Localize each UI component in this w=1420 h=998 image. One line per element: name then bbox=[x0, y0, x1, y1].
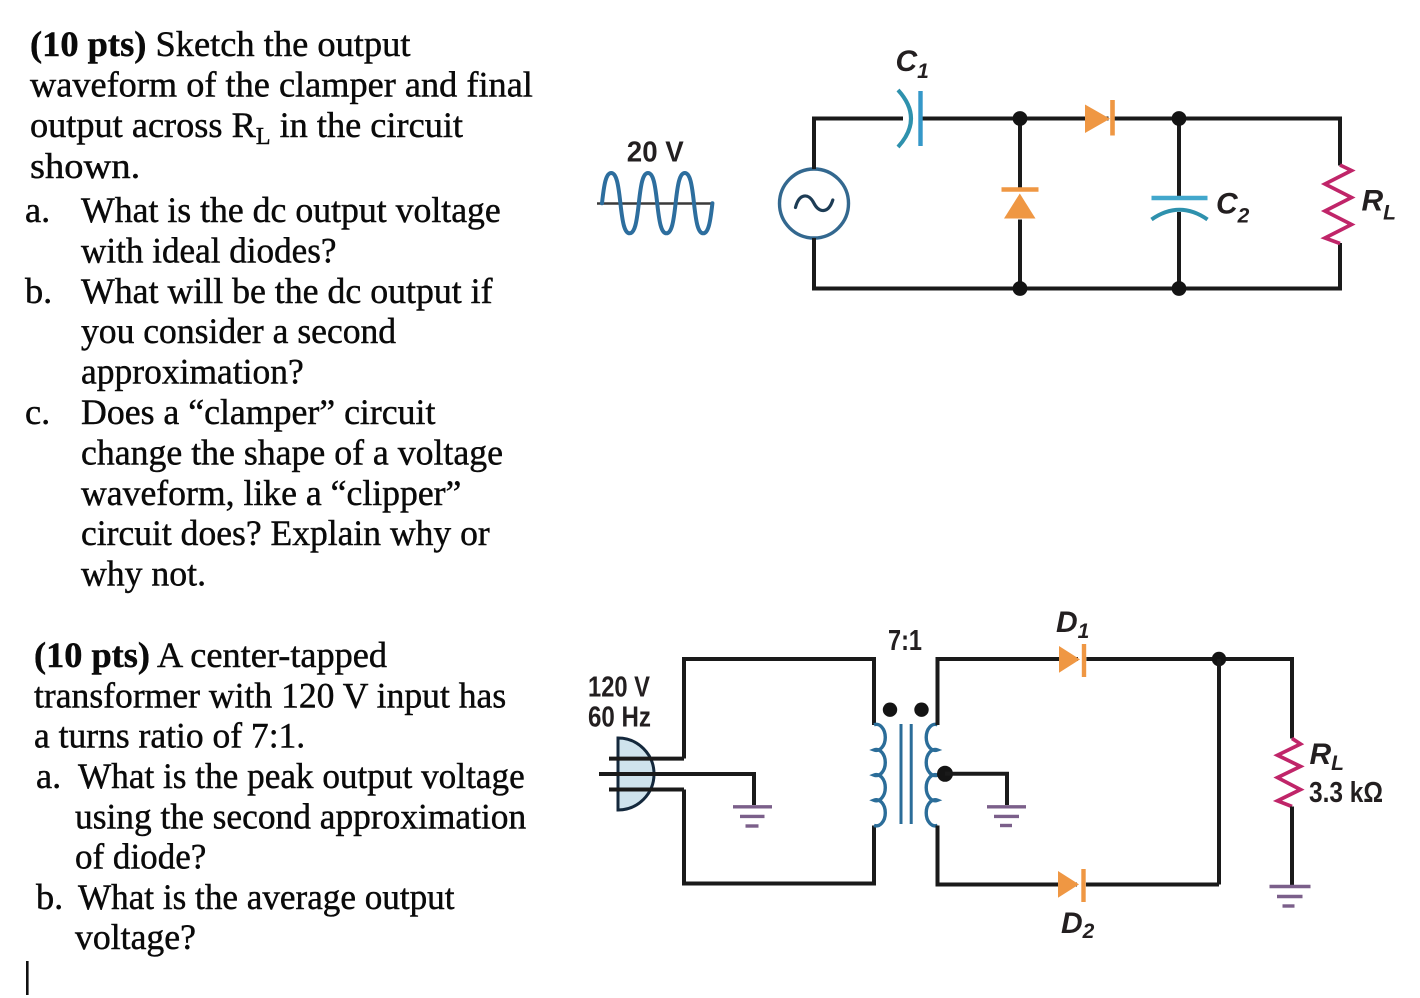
resistor RL (circuit 1) bbox=[1325, 165, 1352, 244]
CIRCUIT 1 (clamper) bbox=[597, 45, 1396, 296]
phase dot secondary bbox=[914, 703, 928, 717]
svg-text:output across RL in the circui: output across RL in the circuit bbox=[30, 105, 463, 150]
svg-text:What will be the dc output if: What will be the dc output if bbox=[81, 271, 493, 311]
label C2 bbox=[1216, 188, 1250, 228]
plug prong bottom bbox=[609, 788, 684, 792]
capacitor C2 branch wire upper bbox=[1177, 119, 1181, 197]
svg-text:a turns ratio of 7:1.: a turns ratio of 7:1. bbox=[34, 716, 305, 756]
capacitor C2 bbox=[1152, 198, 1208, 220]
secondary top wire through D1 bbox=[938, 659, 1293, 739]
node E (output junction) bbox=[1212, 652, 1226, 666]
svg-text:you consider a second: you consider a second bbox=[81, 311, 396, 351]
wire from C1 to top-right corner bbox=[921, 119, 1341, 166]
svg-text:b.: b. bbox=[25, 271, 52, 311]
AC source VS bbox=[780, 169, 849, 238]
center tap dot bbox=[937, 766, 953, 782]
svg-text:What is the average output: What is the average output bbox=[78, 877, 455, 917]
ground (primary neutral) bbox=[733, 807, 772, 826]
svg-text:60 Hz: 60 Hz bbox=[588, 701, 651, 733]
label C1 bbox=[896, 45, 929, 83]
svg-text:voltage?: voltage? bbox=[75, 917, 196, 957]
primary loop bottom wire bbox=[684, 790, 874, 884]
svg-text:shown.: shown. bbox=[30, 146, 140, 186]
node C (top junction of C2) bbox=[1172, 111, 1187, 126]
svg-text:7:1: 7:1 bbox=[888, 625, 922, 657]
primary loop top wire bbox=[684, 659, 874, 759]
svg-text:What is the peak output voltag: What is the peak output voltage bbox=[78, 756, 525, 796]
svg-text:120 V: 120 V bbox=[588, 672, 651, 704]
secondary bottom wire through D2 bbox=[938, 826, 1220, 885]
diode D2 bbox=[1058, 869, 1084, 902]
value label 20 V bbox=[627, 136, 685, 168]
svg-text:What is the dc output voltage: What is the dc output voltage bbox=[81, 190, 501, 230]
label RL (circuit 1) bbox=[1362, 185, 1397, 225]
wire RL bottom to ground bbox=[1290, 807, 1294, 887]
svg-text:RL: RL bbox=[1362, 185, 1397, 225]
svg-text:D2: D2 bbox=[1061, 907, 1095, 943]
transformer secondary winding bbox=[926, 724, 937, 825]
svg-text:a.: a. bbox=[36, 756, 61, 796]
node A (top junction of shunt diode) bbox=[1013, 111, 1028, 126]
svg-text:20 V: 20 V bbox=[627, 136, 685, 168]
text cursor caret bbox=[26, 961, 29, 995]
transformer primary winding bbox=[874, 724, 885, 825]
svg-text:(10 pts) Sketch the output: (10 pts) Sketch the output bbox=[30, 24, 411, 64]
AC plug symbol bbox=[618, 738, 654, 810]
shunt diode branch wire bbox=[1018, 119, 1022, 289]
capacitor C1 bbox=[898, 90, 921, 147]
svg-text:C1: C1 bbox=[896, 45, 929, 83]
svg-text:(10 pts) A center-tapped: (10 pts) A center-tapped bbox=[34, 635, 387, 675]
svg-text:3.3 kΩ: 3.3 kΩ bbox=[1309, 777, 1383, 809]
label RL (circuit 2) bbox=[1310, 738, 1345, 775]
svg-text:waveform, like a “clipper”: waveform, like a “clipper” bbox=[81, 473, 461, 513]
svg-text:a.: a. bbox=[25, 190, 50, 230]
label D1 bbox=[1056, 606, 1089, 643]
svg-text:with ideal diodes?: with ideal diodes? bbox=[81, 230, 337, 270]
ground (center tap) bbox=[987, 807, 1026, 826]
svg-text:circuit does? Explain why or: circuit does? Explain why or bbox=[81, 513, 490, 553]
plug prong top bbox=[609, 757, 684, 761]
svg-text:Does a “clamper” circuit: Does a “clamper” circuit bbox=[81, 392, 435, 432]
QUESTION TEXT LEFT COLUMN bbox=[25, 24, 533, 995]
svg-text:approximation?: approximation? bbox=[81, 352, 304, 392]
capacitor C2 branch wire lower bbox=[1177, 212, 1181, 289]
svg-text:b.: b. bbox=[36, 877, 63, 917]
ground (below RL) bbox=[1270, 887, 1311, 907]
svg-text:c.: c. bbox=[25, 392, 50, 432]
resistor RL (circuit 2) bbox=[1278, 738, 1301, 806]
series diode (pointing right) bbox=[1085, 100, 1113, 136]
diode D1 bbox=[1059, 644, 1084, 677]
svg-text:C2: C2 bbox=[1216, 188, 1250, 228]
wire from source top to C1 bbox=[814, 119, 903, 170]
CIRCUIT 2 (center-tapped transformer rectifier) bbox=[588, 606, 1383, 943]
center tap wire to ground bbox=[945, 774, 1007, 805]
phase dot primary bbox=[883, 703, 897, 717]
svg-text:waveform of the clamper and fi: waveform of the clamper and final bbox=[30, 65, 533, 105]
svg-text:RL: RL bbox=[1310, 738, 1345, 775]
source waveform icon (sine with axis) bbox=[597, 173, 714, 233]
svg-text:why not.: why not. bbox=[81, 554, 206, 594]
shunt diode (clamper diode, pointing up) bbox=[1002, 190, 1039, 219]
value label 120 V 60 Hz bbox=[588, 672, 651, 734]
value label 3.3 kOhm bbox=[1309, 777, 1383, 809]
label D2 bbox=[1061, 907, 1095, 943]
node B (bottom junction of shunt diode) bbox=[1013, 281, 1028, 296]
transformer core bbox=[901, 724, 911, 824]
wire junction down to bottom rail bbox=[1217, 659, 1221, 885]
plug prong middle (to ground) bbox=[599, 774, 754, 805]
wire source bottom / bottom rail bbox=[814, 238, 1340, 289]
svg-text:using the second approximation: using the second approximation bbox=[75, 796, 526, 836]
label 7:1 bbox=[888, 625, 922, 657]
svg-text:change the shape of a voltage: change the shape of a voltage bbox=[81, 432, 503, 472]
node D (bottom junction of C2) bbox=[1172, 281, 1187, 296]
svg-text:of diode?: of diode? bbox=[75, 837, 206, 877]
svg-text:D1: D1 bbox=[1056, 606, 1089, 643]
svg-text:transformer with 120 V input h: transformer with 120 V input has bbox=[34, 675, 506, 715]
